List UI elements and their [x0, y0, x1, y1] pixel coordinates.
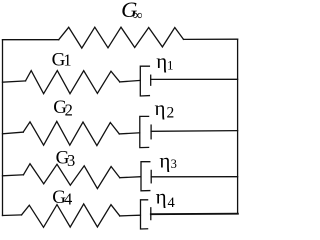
- label eta2: [155, 96, 175, 122]
- wire top-right: [184, 38, 238, 40]
- spring G1: [26, 71, 120, 94]
- svg-text:2: 2: [167, 104, 175, 121]
- wire branch3 to dashpot: [120, 177, 141, 178]
- wire rod eta4: [151, 213, 238, 216]
- wire rod eta3: [151, 176, 237, 178]
- wire branch1 to dashpot: [120, 80, 140, 82]
- svg-text:2: 2: [65, 101, 73, 120]
- dashpot eta2 cylinder: [140, 116, 149, 147]
- label G_inf: [121, 0, 142, 24]
- dashpot eta1 piston: [150, 75, 152, 85]
- wire top-left: [3, 39, 59, 41]
- wire branch4 to dashpot: [120, 214, 141, 217]
- spring G_inf: [59, 27, 184, 48]
- label G4: [52, 187, 72, 209]
- label G2: [53, 97, 73, 120]
- dashpot eta3 cylinder: [141, 162, 150, 191]
- left bus wire: [2, 40, 4, 216]
- svg-text:4: 4: [168, 195, 176, 211]
- wire branch1 left: [3, 81, 26, 82]
- label G3: [56, 148, 76, 170]
- dashpot eta2 piston: [150, 125, 152, 139]
- svg-text:η: η: [155, 96, 166, 120]
- svg-text:η: η: [159, 149, 170, 173]
- dashpot eta1 cylinder: [140, 66, 149, 96]
- spring G3: [23, 164, 119, 189]
- wire branch2 left: [3, 132, 24, 134]
- wire rod eta2: [151, 130, 238, 133]
- svg-text:1: 1: [167, 58, 174, 73]
- svg-text:4: 4: [64, 190, 72, 209]
- right bus wire: [237, 39, 239, 214]
- wire branch4 left: [3, 214, 22, 217]
- spring G4: [22, 204, 120, 227]
- wire branch3 left: [3, 175, 24, 176]
- spring G2: [23, 121, 119, 145]
- label eta1: [156, 49, 173, 73]
- svg-text:∞: ∞: [133, 9, 143, 24]
- dashpot eta3 piston: [150, 170, 152, 182]
- svg-text:η: η: [156, 185, 167, 209]
- label eta4: [156, 185, 176, 211]
- svg-text:3: 3: [67, 151, 75, 170]
- svg-text:η: η: [156, 49, 167, 73]
- svg-text:1: 1: [63, 51, 71, 70]
- label eta3: [159, 149, 176, 173]
- svg-text:3: 3: [171, 157, 177, 171]
- dashpot eta4 cylinder: [141, 200, 148, 229]
- wire branch2 to dashpot: [119, 133, 139, 134]
- dashpot eta4 piston: [150, 208, 152, 220]
- wire rod eta1: [151, 78, 238, 80]
- label G1: [52, 49, 72, 70]
